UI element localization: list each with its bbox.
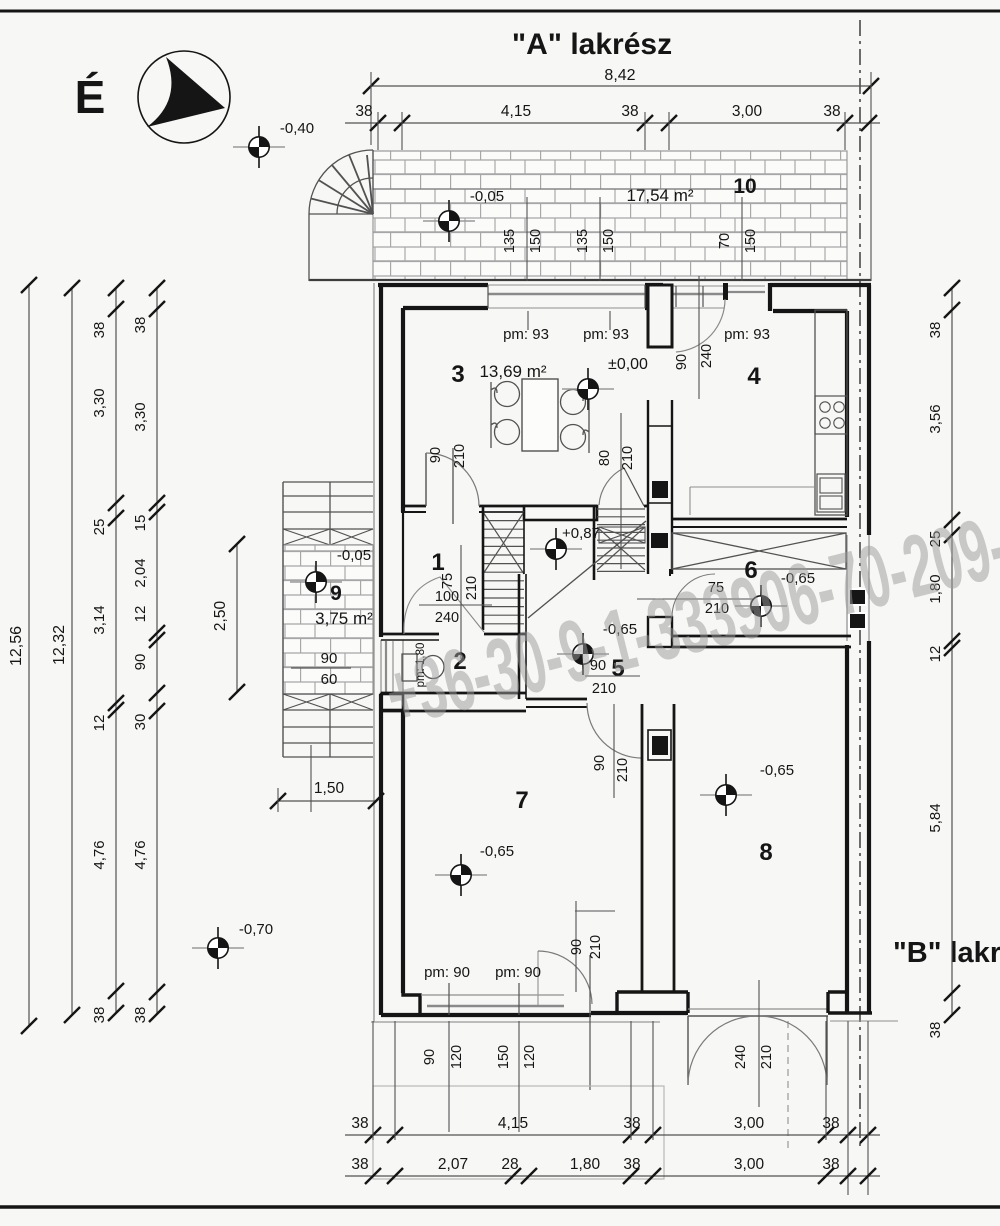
kitchen counter room 4 [815, 310, 847, 515]
bottom dim row B [345, 1175, 880, 1177]
svg-text:3,75 m²: 3,75 m² [315, 609, 373, 628]
svg-text:12: 12 [927, 646, 944, 663]
svg-text:±0,00: ±0,00 [608, 356, 648, 373]
svg-text:8,42: 8,42 [604, 67, 635, 84]
room6 level -0,65 [735, 585, 787, 627]
right wall window 1,80 [846, 535, 848, 641]
compass north symbol [138, 51, 230, 143]
level marker +0,87 landing [530, 528, 582, 570]
top wall stub 70 [723, 283, 728, 300]
svg-text:38: 38 [91, 1007, 108, 1024]
landing top wall thick [524, 506, 597, 520]
svg-text:38: 38 [132, 317, 149, 334]
svg-text:pm: 93: pm: 93 [583, 326, 629, 343]
svg-text:150: 150 [601, 229, 617, 253]
level marker -0,40 [233, 126, 285, 168]
svg-text:-0,70: -0,70 [239, 921, 273, 938]
svg-text:25: 25 [91, 519, 108, 536]
room2 bottom wall [381, 692, 526, 695]
svg-text:3,30: 3,30 [132, 402, 149, 431]
top wall pillar mid (solid) [645, 283, 663, 309]
window sill blocks [849, 589, 866, 605]
svg-text:12,56: 12,56 [8, 626, 25, 666]
left wall outer line [379, 285, 383, 637]
svg-text:38: 38 [927, 322, 944, 339]
svg-text:90: 90 [569, 939, 585, 955]
left wall inner line [401, 308, 405, 512]
wall room2 right [518, 574, 521, 699]
top wall window A glazing [488, 284, 645, 286]
svg-text:1,50: 1,50 [314, 780, 345, 797]
bottom wall right pillar [828, 992, 872, 1013]
door 80/210 room3-corridor [624, 468, 644, 506]
room 8 double door threshold [688, 1008, 828, 1010]
svg-text:1: 1 [431, 549, 444, 576]
svg-text:38: 38 [823, 103, 840, 120]
svg-text:5,84: 5,84 [927, 803, 944, 832]
left wall window 90/60 to terrace 9 [380, 640, 382, 694]
left chain total 12,32 [71, 288, 73, 1015]
gray helper rectangle [373, 1086, 664, 1179]
svg-text:135: 135 [575, 229, 591, 253]
bottom wall mid pillar [617, 992, 688, 1013]
svg-text:240: 240 [435, 610, 459, 626]
top wall corner verticals [768, 283, 772, 311]
svg-text:4,15: 4,15 [498, 1115, 528, 1132]
svg-text:12,32: 12,32 [51, 625, 68, 665]
svg-text:150: 150 [496, 1045, 512, 1069]
right wall inner line [845, 311, 849, 517]
room8 level -0,65 [700, 774, 752, 816]
dim 1,50 [278, 800, 376, 802]
bottom wall left pillar [381, 960, 420, 1015]
svg-text:210: 210 [588, 935, 604, 959]
svg-text:28: 28 [501, 1156, 518, 1173]
svg-text:3,00: 3,00 [734, 1156, 765, 1173]
room 8 double door leaves [687, 1016, 689, 1085]
chain 2,50 (terrace 9) [236, 544, 238, 692]
svg-text:240: 240 [699, 344, 715, 368]
stove [815, 396, 847, 434]
terrace 10 brick paving [373, 151, 847, 280]
chimney column mid [647, 400, 649, 574]
WC room 2 : cistern [402, 654, 417, 681]
room8 door dims rotated 240/210 [758, 980, 760, 1107]
svg-text:3,14: 3,14 [91, 605, 108, 634]
svg-text:-0,05: -0,05 [470, 188, 504, 205]
extension dashed line bottom right [787, 1021, 789, 1150]
svg-text:7: 7 [515, 787, 528, 814]
svg-text:90: 90 [321, 650, 338, 667]
svg-text:3,56: 3,56 [927, 404, 944, 433]
winder stair fan [309, 150, 373, 281]
svg-text:135: 135 [502, 229, 518, 253]
svg-text:38: 38 [623, 1115, 640, 1132]
terrace 10 inner edge line [373, 188, 847, 190]
WC bowl [422, 656, 444, 679]
svg-text:38: 38 [355, 103, 372, 120]
watermark phone number [376, 488, 1000, 745]
svg-text:-0,40: -0,40 [280, 120, 314, 137]
door 90/240 rooms 3/4 [676, 299, 725, 352]
dining table room 3 [522, 379, 558, 451]
room4 bottom wall [672, 518, 847, 521]
bottom wall outer line [381, 1013, 591, 1017]
svg-text:"A" lakrész: "A" lakrész [512, 28, 672, 61]
svg-text:4,76: 4,76 [91, 840, 108, 869]
terrace 9 left edge [282, 482, 284, 757]
svg-text:90: 90 [422, 1049, 438, 1065]
svg-text:100: 100 [435, 589, 459, 605]
bottom entry door room 7 arc [537, 951, 539, 1005]
level marker ±0,00 [562, 368, 614, 410]
left chain total 12,56 [28, 285, 30, 1026]
kitchen low cabinet line [690, 486, 815, 488]
svg-text:240: 240 [733, 1045, 749, 1069]
terrace 9 brick area [283, 545, 373, 694]
svg-text:2,04: 2,04 [132, 558, 149, 587]
window width labels 135/150 [526, 197, 528, 281]
door 90/210 to room 7 [641, 707, 643, 758]
door labels room7 (rotated) [613, 704, 615, 798]
svg-text:38: 38 [621, 103, 638, 120]
wall rooms 7/8 [641, 704, 644, 992]
terrace 9 steps bottom [283, 694, 373, 757]
svg-text:-0,05: -0,05 [337, 547, 371, 564]
terrace 10 level -0,05 [423, 200, 475, 242]
svg-text:3,30: 3,30 [91, 388, 108, 417]
svg-text:+0,87: +0,87 [562, 525, 600, 542]
svg-text:210: 210 [620, 446, 636, 470]
step arrows top [283, 529, 373, 545]
svg-text:210: 210 [759, 1045, 775, 1069]
svg-text:38: 38 [927, 1022, 944, 1039]
bottom windows glazing (120/150/120) [421, 994, 564, 996]
partition room3 bottom [401, 505, 426, 508]
svg-text:150: 150 [743, 229, 759, 253]
terrace 10 bottom edge [309, 279, 871, 281]
svg-text:90: 90 [674, 354, 690, 370]
right chain [951, 288, 953, 1015]
wall room1/room2 [381, 633, 439, 636]
svg-text:3,00: 3,00 [732, 103, 763, 120]
bottom door labels room7 (rotated) [575, 901, 577, 992]
svg-text:4,76: 4,76 [132, 840, 149, 869]
door labels 80/210 [620, 413, 622, 569]
left wall finish line [373, 283, 375, 1022]
room6 bottom / room8 top wall [672, 635, 851, 638]
stair flight 2 treads [597, 509, 645, 571]
page frame bottom [0, 1205, 1000, 1209]
top wall inner line [403, 306, 488, 310]
step arrows bottom [283, 694, 373, 710]
svg-text:30: 30 [132, 714, 149, 731]
room7 level -0,65 [435, 854, 487, 896]
svg-text:80: 80 [597, 450, 613, 466]
svg-text:2,50: 2,50 [212, 601, 229, 632]
svg-text:-0,65: -0,65 [480, 843, 514, 860]
top wall outer line [378, 283, 488, 287]
small x-brace left [599, 527, 645, 543]
svg-text:38: 38 [623, 1156, 640, 1173]
svg-text:210: 210 [615, 758, 631, 782]
svg-text:90: 90 [132, 654, 149, 671]
svg-text:17,54 m²: 17,54 m² [626, 186, 693, 205]
left chain 4 [156, 288, 158, 1014]
svg-text:12: 12 [132, 606, 149, 623]
sink [817, 474, 845, 512]
svg-text:pm: 93: pm: 93 [724, 326, 770, 343]
svg-text:É: É [75, 71, 106, 123]
svg-text:120: 120 [449, 1045, 465, 1069]
svg-text:4: 4 [747, 363, 761, 390]
svg-text:38: 38 [132, 1007, 149, 1024]
bottom wall finish line [371, 1021, 660, 1023]
level marker -0,70 [192, 927, 244, 969]
door labels 90/240 room4 [698, 276, 700, 399]
bottom dim row A [345, 1134, 880, 1136]
door 75/210 room6 [672, 574, 715, 617]
terrace 9 steps top [283, 482, 373, 545]
svg-text:90: 90 [592, 755, 608, 771]
svg-text:9: 9 [330, 582, 342, 605]
stair left wall [482, 506, 485, 630]
svg-text:4,15: 4,15 [501, 103, 531, 120]
svg-text:"B" lakrész: "B" lakrész [893, 937, 1000, 969]
stair flight 1 [483, 512, 524, 624]
svg-text:3: 3 [451, 361, 464, 388]
svg-text:pm: 90: pm: 90 [495, 964, 541, 981]
section line (A/B boundary) dash-dot [859, 20, 861, 1150]
top wall window B [663, 285, 765, 287]
svg-text:75: 75 [440, 573, 456, 589]
page frame top [0, 10, 1000, 13]
dimension row 38/4,15/38/3,00/38 [345, 122, 880, 124]
dimension 8,42 [371, 85, 871, 87]
svg-text:10: 10 [733, 175, 756, 198]
svg-text:12: 12 [91, 715, 108, 732]
svg-text:60: 60 [321, 671, 338, 688]
left wall pier 30 [381, 694, 403, 710]
svg-text:15: 15 [132, 515, 149, 532]
svg-text:13,69 m²: 13,69 m² [479, 362, 546, 381]
svg-text:120: 120 [522, 1045, 538, 1069]
door 90/210 room3-room1 [425, 453, 427, 506]
wall rooms 3/4 pillar [648, 285, 672, 347]
left chain 3 [115, 288, 117, 1013]
svg-text:38: 38 [351, 1115, 368, 1132]
svg-text:70: 70 [717, 233, 733, 249]
svg-text:8: 8 [759, 839, 772, 866]
svg-text:3,00: 3,00 [734, 1115, 765, 1132]
svg-text:210: 210 [464, 576, 480, 600]
room6 left pillar [648, 617, 672, 647]
svg-text:pm: 93: pm: 93 [503, 326, 549, 343]
hall level -0,65 [557, 633, 609, 675]
right wall outer line [867, 285, 871, 535]
door room2 arc [404, 577, 484, 634]
landing walls [593, 506, 596, 580]
svg-text:210: 210 [452, 444, 468, 468]
svg-text:38: 38 [91, 322, 108, 339]
svg-text:90: 90 [428, 447, 444, 463]
svg-text:38: 38 [822, 1156, 839, 1173]
svg-text:pm: 90: pm: 90 [424, 964, 470, 981]
svg-text:38: 38 [351, 1156, 368, 1173]
door labels room3 90/210 [452, 448, 454, 524]
svg-text:-0,65: -0,65 [760, 762, 794, 779]
svg-text:2,07: 2,07 [438, 1156, 468, 1173]
svg-text:38: 38 [822, 1115, 839, 1132]
X band between rooms 4/6 [672, 533, 846, 569]
stair arrow [528, 521, 646, 618]
svg-text:150: 150 [528, 229, 544, 253]
svg-text:1,80: 1,80 [570, 1156, 601, 1173]
